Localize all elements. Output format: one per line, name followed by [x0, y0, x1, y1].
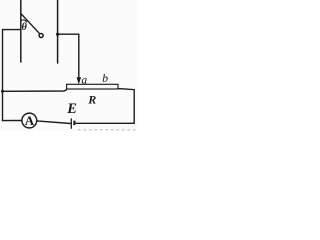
- svg-text:θ: θ: [22, 22, 28, 33]
- battery short plate: [73, 121, 75, 126]
- wire top-left horizontal: [3, 29, 21, 31]
- wire rheostat right to corner: [118, 89, 134, 124]
- wire branch to rheostat left end: [3, 90, 67, 92]
- slider arrow head: [77, 77, 82, 84]
- wire left vertical: [2, 30, 4, 121]
- wire battery to ammeter: [37, 121, 71, 124]
- svg-text:R: R: [87, 92, 96, 106]
- capacitor right plate: [57, 0, 59, 63]
- svg-text:E: E: [66, 101, 77, 117]
- wire ammeter to left corner: [3, 120, 23, 122]
- junction dot left wire: [1, 90, 4, 93]
- angle arc: [21, 20, 27, 22]
- wire bottom right segment: [76, 122, 134, 124]
- ball: [39, 34, 43, 38]
- ammeter circle: [22, 113, 37, 128]
- svg-text:A: A: [25, 113, 35, 128]
- capacitor left plate: [20, 0, 22, 62]
- svg-text:b: b: [102, 73, 108, 85]
- junction dot right plate: [56, 33, 59, 36]
- cropped text artifact line at bottom: [78, 129, 137, 131]
- rheostat R box: [67, 84, 118, 89]
- string at angle: [21, 14, 40, 34]
- battery long plate: [70, 118, 72, 128]
- wire from right plate to slider: [58, 34, 79, 77]
- svg-text:a: a: [81, 74, 87, 86]
